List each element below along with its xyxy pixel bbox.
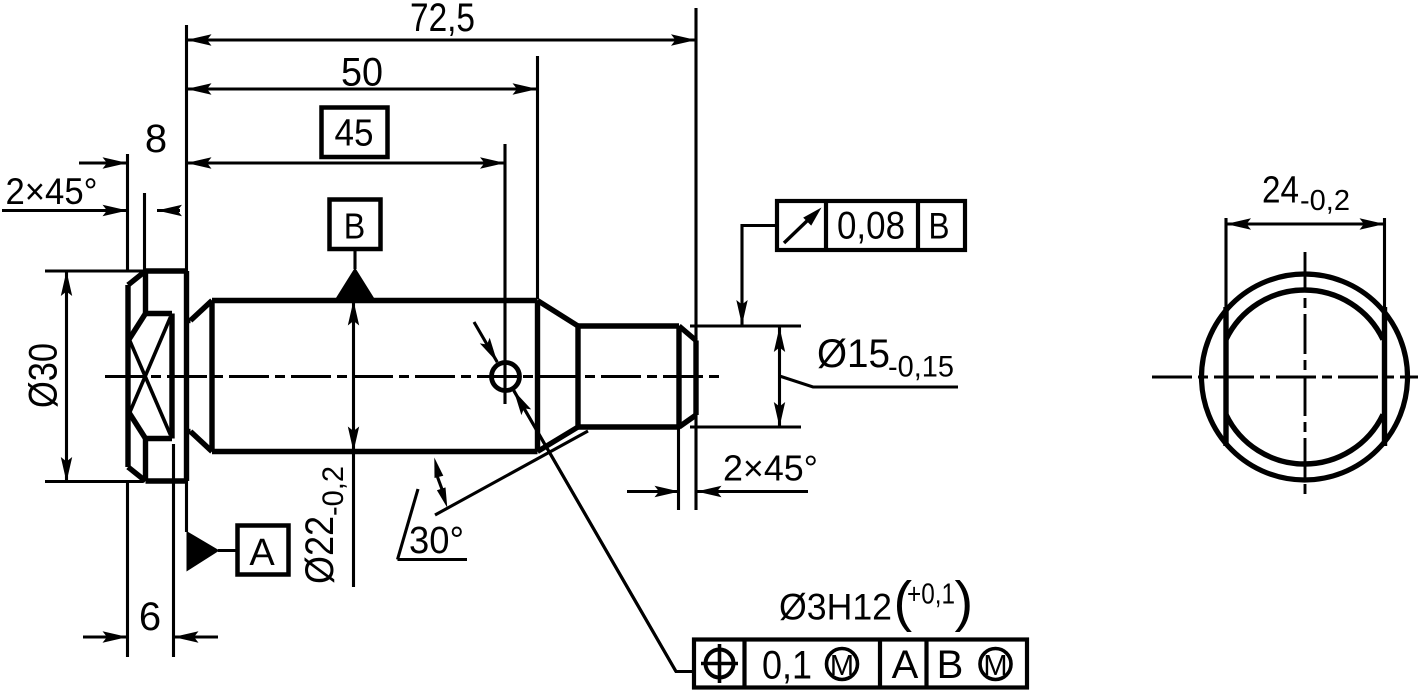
- extension line O15 top: [690, 324, 801, 327]
- svg-text:45: 45: [335, 113, 374, 155]
- extension line chamfer up: [143, 193, 146, 271]
- spigot boundary left: [575, 326, 580, 427]
- runout tolerance frame: [777, 201, 965, 250]
- head bottom-left chamfer: [128, 467, 146, 481]
- dimension 2x45 top left: [2, 171, 180, 212]
- dimension 6: [83, 595, 218, 639]
- svg-text:50: 50: [341, 51, 383, 95]
- body right face: [535, 301, 540, 452]
- extension line O15 bottom: [690, 425, 801, 428]
- end chamfer bottom: [679, 415, 696, 427]
- svg-text:A: A: [892, 643, 919, 687]
- head top edge: [146, 268, 187, 273]
- svg-text:6: 6: [139, 595, 161, 639]
- extension line O30 bottom: [45, 480, 143, 483]
- svg-text:M: M: [983, 650, 1007, 682]
- extension line shaft end: [694, 8, 697, 510]
- cone top edge: [538, 301, 579, 327]
- flat bottom diagonal: [128, 411, 146, 439]
- extension line O30 top: [45, 269, 145, 272]
- neck top cone: [191, 301, 213, 321]
- svg-text:Ø3H12: Ø3H12: [779, 587, 892, 628]
- svg-text:Ø15: Ø15: [817, 332, 890, 376]
- cone bottom edge: [538, 427, 579, 452]
- side view chamfer circle: [1226, 290, 1383, 464]
- end chamfer boundary: [676, 326, 681, 427]
- flat top edge: [146, 311, 173, 316]
- svg-text:30°: 30°: [409, 520, 464, 562]
- wire centerline main axis: [105, 375, 719, 378]
- svg-text:A: A: [249, 532, 275, 574]
- side view vertical centerline: [1304, 252, 1307, 500]
- svg-text:Ø30: Ø30: [22, 343, 66, 408]
- extension line flat end down: [172, 444, 175, 657]
- flat right edge: [169, 314, 174, 439]
- svg-text:8: 8: [145, 117, 167, 161]
- svg-text:B: B: [937, 643, 964, 687]
- svg-text:0,1: 0,1: [762, 644, 812, 688]
- svg-text:-0,15: -0,15: [888, 351, 954, 384]
- body top edge: [212, 298, 538, 303]
- spigot bottom edge: [578, 424, 679, 429]
- datum B: [330, 200, 381, 300]
- side view outer circle: [1202, 274, 1408, 480]
- head left face: [125, 285, 130, 467]
- dimension 24: [1226, 170, 1385, 225]
- end face: [693, 341, 698, 416]
- neck bottom edge: [187, 429, 191, 434]
- flat bottom edge: [146, 436, 173, 441]
- svg-text:+0,1: +0,1: [907, 579, 955, 611]
- dimension O22: [298, 301, 354, 588]
- svg-text:2×45°: 2×45°: [723, 448, 818, 489]
- hole O3: [492, 363, 520, 391]
- extension line head right face up: [185, 25, 188, 271]
- side view left flat: [1223, 307, 1228, 446]
- dimension O15: [780, 327, 959, 427]
- head chamfer boundary upper: [143, 271, 148, 314]
- extension line head left face down: [126, 481, 129, 657]
- extension line flat right up: [1383, 218, 1386, 311]
- svg-text:Ø22: Ø22: [298, 516, 342, 584]
- dimension O30: [22, 271, 67, 482]
- dimension 50: [187, 51, 538, 95]
- flat X mark line 2: [130, 317, 171, 413]
- svg-text:24: 24: [1262, 170, 1299, 212]
- head bottom edge: [146, 478, 187, 483]
- datum A: [187, 481, 289, 575]
- svg-text:-0,2: -0,2: [317, 466, 350, 516]
- dimension 2x45 bottom right: [627, 448, 818, 492]
- dimension 8: [79, 117, 167, 163]
- head top-left chamfer: [128, 271, 146, 285]
- dimension 45 boxed: [187, 108, 506, 164]
- neck bottom cone: [191, 432, 213, 452]
- svg-text:0,08: 0,08: [837, 205, 905, 248]
- svg-text:-0,2: -0,2: [1300, 185, 1350, 217]
- extension line body right face up: [536, 56, 539, 299]
- body left boundary: [209, 301, 214, 452]
- flat X mark line 1: [130, 340, 171, 435]
- dimension 30 degrees: [398, 431, 589, 562]
- hole size label O3H12: [779, 570, 973, 633]
- head right face: [184, 271, 189, 481]
- svg-text:B: B: [344, 206, 366, 247]
- flat top diagonal: [128, 314, 146, 342]
- body bottom edge: [212, 449, 538, 454]
- side view horizontal centerline: [1152, 376, 1418, 379]
- extension line hole center: [503, 144, 506, 404]
- extension line end chamfer down: [677, 427, 680, 510]
- spigot top edge: [578, 323, 679, 328]
- position leader to hole: [474, 322, 694, 672]
- neck top edge: [187, 318, 191, 323]
- end chamfer top: [679, 326, 696, 341]
- extension line head left face up: [126, 154, 129, 271]
- svg-text:): ): [955, 570, 974, 633]
- svg-text:72,5: 72,5: [410, 0, 475, 40]
- side view right flat: [1382, 307, 1387, 446]
- head chamfer boundary lower: [143, 439, 148, 482]
- position tolerance frame: [694, 640, 1027, 688]
- dimension 72,5: [187, 0, 697, 40]
- runout leader arrow: [742, 226, 777, 326]
- extension line flat left up: [1224, 218, 1227, 311]
- svg-text:2×45°: 2×45°: [6, 171, 98, 212]
- svg-text:B: B: [929, 206, 950, 247]
- svg-text:M: M: [830, 650, 854, 682]
